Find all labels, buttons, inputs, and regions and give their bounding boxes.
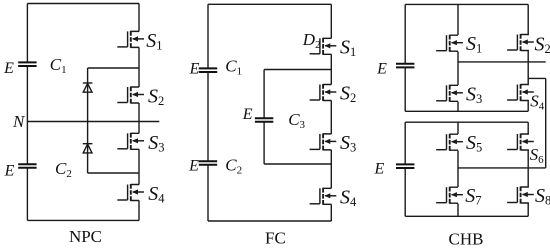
diode D2 (lower clamp diode) [83, 144, 93, 153]
wire: NPC right leg segment top rail to S1 drain [138, 4, 140, 32]
wire: CHB cascade vertical connecting bridges [545, 78, 547, 167]
transistor S3 (CHB) [436, 85, 463, 102]
transistor S4 (NPC) [117, 184, 144, 201]
wire: CHB bridge-1 bottom rail [405, 110, 528, 112]
wire: CHB bridge-2 left midpoint line to cascade [458, 167, 546, 169]
svg-text:FC: FC [265, 229, 286, 248]
wire: CHB bridge-2 left leg S7 source to bottom rail [457, 204, 459, 217]
wire: CHB bridge-1 left leg S1 source to S3 drain [457, 52, 459, 86]
wire: FC bottom rail [208, 220, 331, 222]
wire: upper clamp connection to S1-S2 junction [88, 67, 139, 69]
wire: FC leg segment S2 source to S3 drain [330, 101, 332, 134]
wire: flying-capacitor bottom connection to S3-S4 junction [264, 163, 331, 165]
capacitor C2 (NPC lower DC-link) [18, 164, 37, 168]
svg-text:E: E [242, 106, 253, 123]
wire: CHB bridge-2 top rail [405, 121, 528, 123]
wire: CHB bridge-1 right leg top to S2 drain [527, 4, 529, 34]
wire: NPC leg segment S2 source to S3 drain [138, 103, 140, 133]
svg-text:NPC: NPC [69, 227, 102, 246]
wire: neutral line N across NPC [27, 121, 159, 123]
wire: CHB bridge-1 right leg S2 source to S4 drain [527, 51, 529, 84]
transistor S7 (CHB) [436, 187, 463, 204]
wire: FC leg segment S1 source to S2 drain [330, 54, 332, 84]
transistor S3 (FC) [310, 133, 337, 150]
svg-text:N: N [12, 112, 26, 131]
wire: CHB bridge-2 left leg S5 source to S7 drain [457, 151, 459, 187]
capacitor C2 (FC lower DC-link) [199, 161, 218, 165]
transistor S1 (FC) [310, 38, 337, 55]
capacitor C3 (flying capacitor) [255, 118, 274, 122]
wire: NPC top rail [27, 3, 139, 5]
transistor S4 (CHB) [507, 84, 534, 101]
svg-text:CHB: CHB [449, 230, 484, 249]
wire: FC left DC bus vertical [207, 4, 209, 221]
wire: NPC clamp diode branch vertical [87, 68, 89, 173]
wire: NPC leg segment S3 source to S4 drain [138, 149, 140, 184]
wire: CHB bridge-2 right leg S6 source to S8 drain [527, 150, 529, 186]
transistor S1 (NPC) [117, 31, 144, 48]
wire: NPC left DC bus vertical [26, 4, 28, 221]
wire: CHB bridge-2 right leg top to S6 drain [527, 122, 529, 134]
capacitor C1 (NPC upper DC-link) [18, 62, 37, 66]
svg-text:E: E [188, 158, 199, 175]
wire: CHB bridge-2 left vertical [404, 122, 406, 216]
transistor S2 (CHB) [507, 34, 534, 51]
wire: NPC leg segment S1 source to S2 drain [138, 47, 140, 87]
transistor S6 (CHB) [507, 134, 534, 151]
wire: lower clamp connection to S3-S4 junction [88, 172, 139, 174]
wire: CHB bridge-1 left leg top to S1 drain [457, 4, 459, 35]
wire: CHB bridge-2 right leg S8 source to bottom rail [527, 203, 529, 216]
capacitor E (CHB bridge-2 DC-link) [396, 164, 415, 168]
wire: CHB phase output line from bridge-1 left midpoint [458, 61, 546, 63]
diode D1 (upper clamp diode) [83, 83, 93, 92]
svg-text:E: E [189, 61, 200, 78]
wire: CHB bridge-1 left vertical [404, 4, 406, 111]
wire: CHB bridge-1 left leg S3 source to bottom rail [457, 102, 459, 112]
svg-text:E: E [3, 60, 14, 77]
wire: FC top rail [208, 3, 331, 5]
wire: CHB bridge-2 bottom rail [405, 215, 528, 217]
svg-text:E: E [4, 163, 15, 180]
wire: NPC bottom rail [27, 219, 139, 221]
svg-text:E: E [374, 161, 385, 178]
wire: NPC leg segment S4 source to bottom rail [138, 201, 140, 221]
wire: FC leg segment S4 source to bottom rail [330, 204, 332, 221]
wire: CHB bridge-1 top rail [405, 3, 528, 5]
capacitor E (CHB bridge-1 DC-link) [396, 64, 415, 68]
transistor S2 (FC) [310, 84, 337, 101]
transistor S3 (NPC) [117, 133, 144, 150]
wire: FC leg segment top rail to S1 drain [330, 4, 332, 38]
transistor S8 (CHB) [507, 187, 534, 204]
capacitor C1 (FC upper DC-link) [199, 68, 218, 72]
svg-text:E: E [376, 61, 387, 78]
transistor S1 (CHB) [436, 35, 463, 52]
wire: flying-capacitor branch vertical [263, 70, 265, 165]
transistor S4 (FC) [310, 188, 337, 205]
wire: flying-capacitor top connection to S1-S2 junction [264, 69, 331, 71]
wire: CHB bridge-1 right midpoint stub [528, 77, 546, 79]
transistor S5 (CHB) [436, 134, 463, 151]
wire: FC leg segment S3 source to S4 drain [330, 150, 332, 188]
transistor S2 (NPC) [117, 87, 144, 104]
wire: CHB bridge-1 right leg S4 source to bottom rail [527, 101, 529, 112]
wire: CHB bridge-2 left leg top to S5 drain [457, 122, 459, 134]
